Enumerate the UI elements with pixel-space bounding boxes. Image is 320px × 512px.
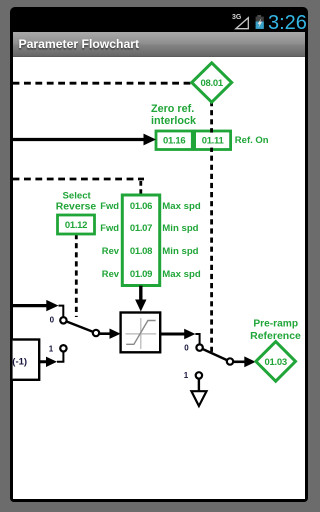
svg-text:interlock: interlock (151, 115, 197, 127)
switch arm (output switch) (200, 348, 230, 362)
svg-text:x(-1): x(-1) (7, 357, 27, 368)
label Select / Reverse (56, 190, 97, 212)
svg-text:Max spd: Max spd (162, 269, 201, 280)
labels Fwd/Rev (100, 200, 120, 279)
svg-text:0: 0 (184, 343, 189, 352)
battery icon (256, 15, 264, 29)
wire: arrow from x(-1) to switch input 1 (39, 352, 63, 367)
wire: input arrow from left edge (13, 300, 64, 318)
terminal circle 1 (60, 345, 66, 351)
label Pre-ramp Reference (250, 318, 301, 341)
wire elbow to reverse switch input 0 (59, 306, 64, 318)
parameter box group 01.06-01.09 (122, 195, 159, 286)
svg-text:0: 0 (50, 316, 55, 325)
limiter axes (125, 333, 156, 335)
wire: limiter output arrow (160, 329, 199, 344)
svg-text:Min spd: Min spd (162, 246, 198, 257)
svg-text:Rev: Rev (102, 268, 120, 279)
terminal circle pivot (93, 330, 99, 336)
svg-text:01.03: 01.03 (265, 357, 287, 368)
diamond 01.03 (256, 342, 296, 382)
svg-text:01.11: 01.11 (202, 136, 225, 147)
svg-text:Zero ref.: Zero ref. (151, 103, 194, 115)
label Zero ref. interlock (151, 103, 197, 127)
svg-text:01.12: 01.12 (65, 220, 87, 231)
terminal circle 0 out (196, 344, 202, 350)
svg-text:08.01: 08.01 (201, 78, 224, 89)
svg-text:Ref. On: Ref. On (235, 135, 269, 146)
diamond 08.01 (192, 63, 232, 102)
wire: arrow into 01.03 (233, 356, 256, 367)
svg-text:Fwd: Fwd (100, 222, 119, 233)
parameter box 01.12 (58, 215, 95, 234)
terminal circle 1 out (196, 372, 202, 378)
svg-text:01.16: 01.16 (163, 136, 185, 147)
svg-text:01.06: 01.06 (130, 201, 152, 212)
x(-1) block (2, 340, 40, 380)
wire: arrow from group down to limiter (135, 286, 146, 312)
wire: dash crossing 01.11 top border (210, 128, 213, 132)
svg-text:Max spd: Max spd (162, 201, 201, 212)
wire: dash crossing 01.11 bottom border (210, 148, 213, 152)
signal strength triangle icon (236, 18, 249, 29)
svg-text:Pre-ramp: Pre-ramp (253, 318, 298, 329)
wire: dashed vertical from diamond 08.01 down through 01.11 to output switch (210, 101, 213, 353)
wire: dashed vertical from 01.12 to reverse switch (75, 234, 78, 317)
svg-text:01.07: 01.07 (130, 223, 152, 234)
wire: dashed elbow down into max/min box (139, 181, 142, 195)
title bar (13, 32, 305, 57)
switch arm (reverse switch) (63, 320, 96, 333)
svg-text:01.09: 01.09 (130, 269, 152, 280)
wire: from reverse switch to limiter (99, 329, 120, 339)
wire: solid arrow into 01.16 (13, 134, 156, 146)
wire to ground (198, 379, 200, 391)
svg-text:Min spd: Min spd (162, 223, 198, 234)
svg-text:1: 1 (184, 371, 189, 380)
status bar 3G label (232, 14, 241, 21)
parameter box 01.16 (156, 131, 192, 150)
svg-text:1: 1 (49, 344, 54, 353)
flowchart canvas (13, 57, 305, 499)
ground triangle (191, 391, 206, 406)
parameter box 01.11 (195, 131, 231, 150)
svg-text:Select: Select (62, 190, 91, 201)
svg-text:Fwd: Fwd (100, 200, 119, 211)
svg-text:01.08: 01.08 (130, 246, 152, 257)
labels Max spd / Min spd (162, 201, 201, 280)
svg-text:Reverse: Reverse (56, 201, 97, 212)
svg-text:Rev: Rev (102, 245, 120, 256)
limiter saturation curve (126, 321, 155, 345)
terminal circle pivot out (227, 358, 233, 364)
terminal circle 0 (60, 317, 66, 323)
status bar clock (268, 13, 307, 33)
limiter block (121, 313, 161, 353)
wire: dashed line from left edge to diamond 08.01 (13, 82, 192, 85)
wire: dashed line from left edge toward max/min box (13, 178, 144, 181)
